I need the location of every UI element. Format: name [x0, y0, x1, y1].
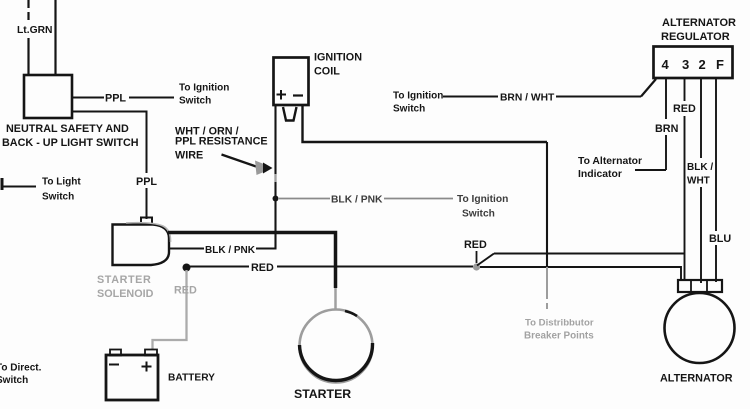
switch box: neutral safety and back-up light switch [24, 75, 72, 118]
svg-text:To Ignition: To Ignition [393, 91, 443, 102]
coil minus [293, 94, 303, 96]
svg-text:Switch: Switch [462, 209, 495, 220]
svg-text:Switch: Switch [0, 375, 28, 386]
gray segment on coil wire below arrow [274, 174, 276, 182]
heavy wire solenoid to starter [168, 233, 336, 289]
wire pinF lower [715, 245, 717, 282]
gray wire to distributor [546, 267, 548, 299]
svg-text:To Ignition: To Ignition [457, 194, 508, 205]
svg-text:PPL RESISTANCE: PPL RESISTANCE [175, 136, 268, 148]
wire BRN/WHT diagonal [641, 79, 656, 97]
starter circle [300, 310, 373, 383]
svg-text:BRN / WHT: BRN / WHT [500, 93, 555, 104]
wire RED (seg2) [277, 266, 473, 268]
wire pin4 BRN lower [665, 135, 667, 170]
to light switch tick [1, 178, 4, 190]
svg-text:ALTERNATOR: ALTERNATOR [662, 17, 736, 29]
wire BRN/WHT (right seg) [556, 96, 641, 98]
svg-text:STARTER: STARTER [97, 274, 151, 286]
wire pin4 BRN upper [665, 78, 667, 119]
svg-text:NEUTRAL SAFETY AND: NEUTRAL SAFETY AND [6, 123, 129, 135]
wire RED upper run [494, 253, 684, 255]
arrow shaft [222, 155, 257, 167]
svg-text:Switch: Switch [179, 96, 211, 107]
wire second top lead-in [54, 0, 56, 76]
svg-text:SOLENOID: SOLENOID [97, 288, 154, 300]
alternator terminal block [678, 280, 722, 292]
svg-text:Breaker Points: Breaker Points [524, 331, 594, 342]
wire pin2 lower [700, 187, 702, 283]
svg-text:WHT: WHT [687, 176, 710, 187]
svg-text:4: 4 [662, 57, 670, 72]
svg-text:To Alternator: To Alternator [578, 156, 642, 167]
svg-text:RED: RED [464, 239, 487, 251]
wire heavy vertical to distributor [546, 142, 548, 267]
svg-text:Lt.GRN: Lt.GRN [17, 25, 52, 36]
wire pinF upper [715, 78, 717, 231]
svg-text:BLK / PNK: BLK / PNK [205, 245, 256, 256]
wire Lt.GRN lead-in top [27, 0, 29, 21]
battery terminal right [145, 350, 157, 356]
wire PPL down to solenoid (upper) [72, 112, 147, 174]
svg-text:BLK /: BLK / [687, 162, 713, 173]
wire to light switch [1, 186, 36, 188]
svg-text:ALTERNATOR: ALTERNATOR [660, 373, 733, 385]
solenoid gray shading [126, 223, 171, 242]
solenoid tab [141, 218, 152, 225]
gray drop into starter [334, 288, 337, 310]
svg-text:3: 3 [682, 57, 689, 72]
svg-text:BLU: BLU [709, 233, 731, 245]
wire RED tap stub [476, 251, 478, 263]
svg-text:2: 2 [699, 57, 706, 72]
battery terminal left [110, 350, 121, 356]
starter circle top-right dashes [345, 311, 357, 316]
svg-text:STARTER: STARTER [294, 387, 351, 401]
svg-text:PPL: PPL [136, 176, 157, 188]
coil tower [283, 107, 297, 121]
svg-text:To Direct.: To Direct. [0, 363, 42, 374]
svg-text:COIL: COIL [314, 66, 340, 78]
starter solenoid body [113, 225, 170, 266]
wire coil - down and right [303, 105, 548, 142]
wire RED diagonal [477, 254, 494, 266]
wire BLK/PNK solenoid (left seg) [168, 248, 204, 250]
arrow head black tip [263, 163, 273, 174]
svg-text:PPL: PPL [105, 93, 126, 105]
svg-text:RED: RED [174, 285, 197, 297]
junction dot gray [473, 263, 480, 270]
svg-text:IGNITION: IGNITION [314, 52, 362, 64]
svg-text:BACK - UP LIGHT SWITCH: BACK - UP LIGHT SWITCH [2, 137, 139, 149]
wire coil + down [274, 105, 276, 249]
svg-text:F: F [716, 57, 724, 72]
alternator circle [665, 293, 735, 363]
svg-text:BLK / PNK: BLK / PNK [331, 195, 383, 206]
battery plus [142, 366, 152, 368]
svg-text:RED: RED [251, 262, 274, 274]
junction dot coil wire [273, 196, 279, 202]
wire PPL to ignition switch (right seg) [129, 97, 174, 99]
wire RED (seg3 to alternator) [480, 267, 681, 281]
battery minus [109, 364, 119, 366]
wire PPL to ignition switch (left seg) [72, 97, 104, 99]
svg-text:Switch: Switch [393, 104, 425, 115]
svg-text:BRN: BRN [655, 123, 679, 135]
gray wire BLK/PNK to ignition (left) [279, 198, 330, 200]
svg-text:To Distribbutor: To Distribbutor [525, 318, 594, 329]
svg-text:WIRE: WIRE [175, 150, 203, 162]
wire pin2 upper [700, 78, 702, 158]
wire to alternator indicator [635, 169, 666, 171]
svg-text:BATTERY: BATTERY [168, 373, 215, 384]
gray wire BLK/PNK to ignition (right) [384, 198, 453, 200]
wire RED (seg1) [189, 266, 249, 268]
svg-text:Switch: Switch [42, 192, 74, 203]
arrow head gray part [255, 161, 265, 176]
wire BLK/PNK solenoid (right seg) [256, 248, 277, 250]
wire pin3 RED upper [684, 78, 686, 101]
battery body [106, 355, 158, 400]
svg-text:To Ignition: To Ignition [179, 83, 229, 94]
alternator regulator box [654, 47, 733, 79]
wire Lt.GRN lower segment [27, 38, 29, 76]
svg-text:Indicator: Indicator [578, 169, 622, 180]
wire PPL down to solenoid (lower) [146, 188, 148, 219]
gray wire RED to battery [153, 270, 187, 350]
wire BRN/WHT (left seg) [443, 96, 498, 98]
coil plus [277, 94, 287, 96]
svg-text:REGULATOR: REGULATOR [661, 31, 730, 43]
junction dot solenoid RED [183, 264, 191, 272]
wire pin3 RED lower [684, 116, 686, 281]
ignition coil box [274, 58, 309, 106]
svg-text:To Light: To Light [42, 177, 81, 188]
svg-text:RED: RED [673, 103, 696, 115]
